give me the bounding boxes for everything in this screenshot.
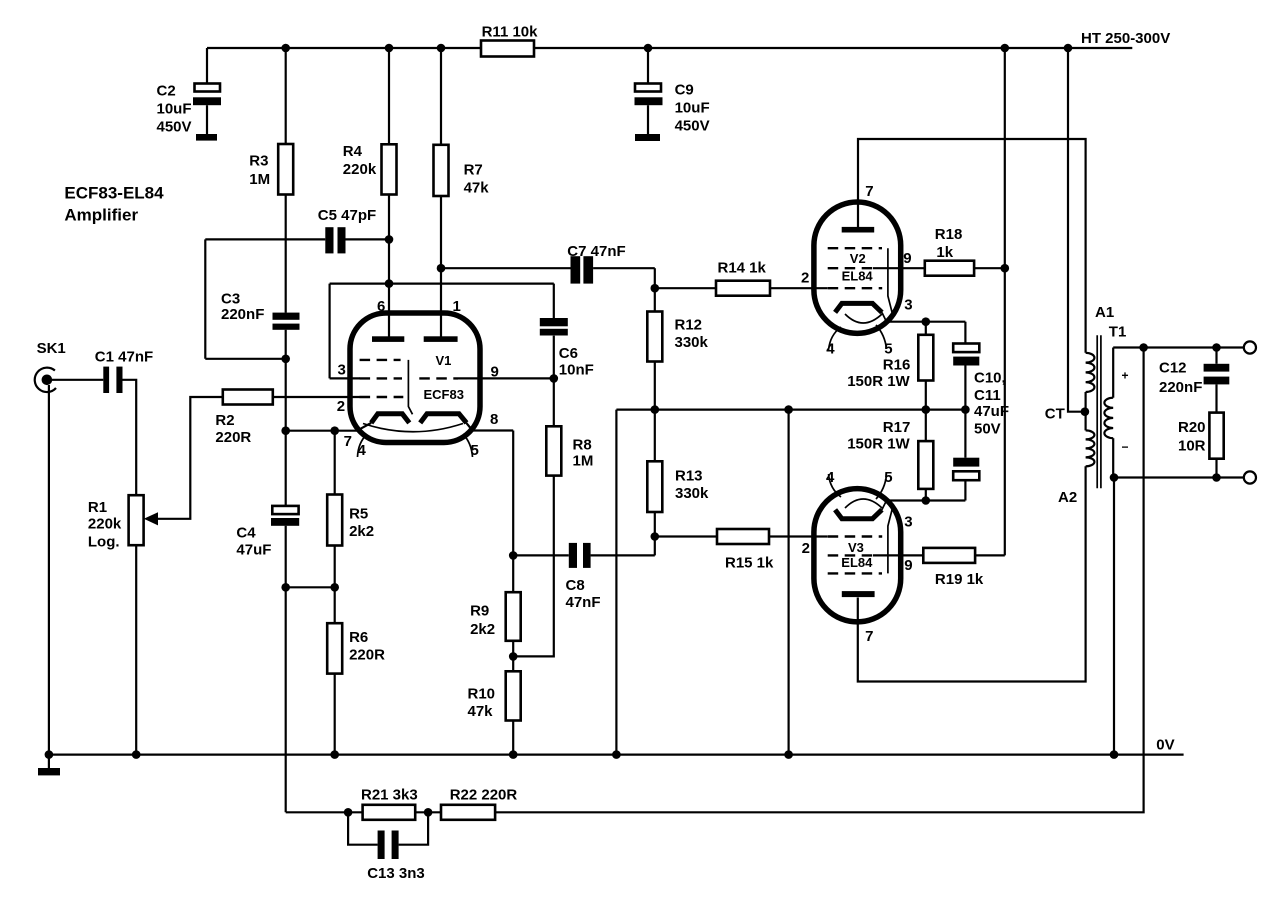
V1 pentode anode plate	[372, 336, 404, 342]
resistor R3	[249, 144, 293, 195]
V2 cathode	[835, 303, 882, 312]
V2 heater arc	[845, 314, 882, 323]
V2 anode plate	[842, 227, 875, 233]
wire C8 row right segment	[591, 554, 655, 556]
wire C5 left leg down	[204, 239, 206, 358]
svg-text:47k: 47k	[468, 703, 494, 720]
wire V1 pin 9 row solid	[458, 377, 554, 379]
V3 anode plate	[842, 591, 875, 597]
svg-text:C9: C9	[675, 82, 694, 99]
svg-text:50V: 50V	[974, 420, 1001, 437]
wire R13 top lead	[654, 410, 656, 462]
V1 control grid dashes	[360, 396, 404, 398]
svg-text:R2: R2	[215, 412, 234, 429]
svg-text:C1 47nF: C1 47nF	[95, 348, 153, 365]
wire R9 bottom to R10 top	[512, 641, 514, 672]
svg-text:C11: C11	[974, 387, 1001, 404]
wire C5 row left segment	[205, 238, 325, 240]
junction bus R16 R17 node	[922, 405, 931, 414]
svg-text:3: 3	[338, 362, 346, 379]
svg-text:R11 10k: R11 10k	[482, 23, 539, 40]
svg-text:C10,: C10,	[974, 370, 1006, 387]
resistor R10	[468, 671, 521, 720]
wire V2 pin 3 row	[887, 321, 966, 323]
wire secondary bottom lead	[1112, 438, 1114, 477]
resistor R2	[215, 390, 272, 446]
V1 suppressor grid dashes	[360, 359, 401, 361]
svg-text:220R: 220R	[349, 647, 385, 664]
capacitor C6	[540, 318, 594, 379]
svg-text:5: 5	[884, 469, 892, 486]
svg-text:3: 3	[904, 514, 912, 531]
V3 designator labels	[841, 540, 873, 570]
svg-text:R4: R4	[343, 143, 363, 160]
V1 heater arc	[363, 424, 463, 432]
svg-text:330k: 330k	[675, 485, 709, 502]
V2 control grid dashes	[828, 287, 883, 289]
wire V3 pin 3 row	[887, 499, 966, 501]
V1 triode grid dashes	[419, 377, 458, 379]
resistor R15	[717, 529, 774, 572]
svg-text:R18: R18	[935, 226, 963, 243]
wire V1 pin 3 link leg	[329, 284, 331, 379]
resistor R11	[481, 23, 538, 56]
wire C9 top lead	[647, 48, 649, 84]
svg-text:4: 4	[826, 469, 835, 486]
resistor R7	[434, 145, 490, 197]
svg-text:7: 7	[344, 433, 352, 450]
wire C5 row right segment to R4 column	[345, 238, 390, 240]
svg-text:A1: A1	[1095, 304, 1114, 321]
wire secondary top lead	[1112, 348, 1114, 398]
svg-text:C12: C12	[1159, 360, 1187, 377]
capacitor C8	[566, 543, 601, 611]
junction R14 R12 C7 node	[651, 284, 660, 293]
svg-text:10uF: 10uF	[157, 101, 192, 118]
wire R18 output to screen supply	[974, 267, 1005, 269]
svg-text:SK1: SK1	[37, 340, 66, 357]
resistor R21	[361, 787, 418, 820]
V2 cathode to pin 3 link	[882, 312, 887, 321]
wire HT rail left segment	[207, 47, 481, 49]
wire C4 bottom through R5-R6 junction and 0V to feedback line	[285, 526, 287, 813]
resistor R5	[327, 495, 374, 546]
wire C6 top lead	[553, 284, 555, 318]
junction V3 pin3 R17	[922, 496, 931, 505]
svg-text:C8: C8	[566, 577, 585, 594]
resistor R9	[470, 592, 521, 641]
svg-text:ECF83: ECF83	[424, 387, 464, 402]
capacitor C9	[635, 82, 710, 142]
wire R20 bottom lead	[1215, 459, 1217, 478]
wire R2 row right into V1 pin 2	[273, 396, 360, 398]
svg-text:10R: 10R	[1178, 438, 1206, 455]
junction CT	[1081, 407, 1090, 416]
label C10 C11 values	[974, 370, 1009, 438]
capacitor C10	[953, 344, 979, 366]
svg-text:9: 9	[491, 364, 499, 381]
junction dots on HT rail	[281, 44, 1072, 53]
svg-text:1k: 1k	[936, 244, 953, 261]
V2 suppressor to cathode link	[888, 248, 893, 314]
wire C8 row left segment	[513, 554, 569, 556]
junction anode link to R4 column	[385, 279, 394, 288]
svg-text:9: 9	[903, 250, 911, 267]
V2 screen grid dashes	[828, 267, 873, 269]
svg-text:8: 8	[490, 411, 498, 428]
capacitor C12	[1159, 360, 1229, 396]
junction C8 to pin8 column	[509, 551, 518, 560]
wire 0V rail	[49, 753, 1184, 755]
title text	[64, 184, 164, 225]
svg-text:220k: 220k	[88, 516, 122, 533]
svg-text:V2: V2	[850, 251, 866, 266]
svg-text:R17: R17	[883, 419, 911, 436]
wire V1 pin 3 entry	[330, 377, 360, 379]
junction R18 screen supply	[1001, 264, 1010, 273]
wire R6 bottom lead to 0V	[334, 674, 336, 755]
svg-text:R12: R12	[675, 317, 703, 334]
svg-text:1: 1	[453, 298, 461, 315]
V1 triode anode plate	[424, 336, 458, 342]
resistor R6	[327, 623, 385, 673]
junction V2 pin3 R16	[922, 317, 931, 326]
svg-text:R5: R5	[349, 506, 368, 523]
wire R17 bottom lead	[925, 489, 927, 501]
svg-text:V3: V3	[848, 540, 864, 555]
junction bus C10 C11 node	[961, 405, 970, 414]
op-amp V1 ECF83 tube outline	[350, 313, 480, 443]
capacitor C3	[221, 291, 300, 330]
wire R15 row left segment	[655, 535, 717, 537]
junction R9 R10 R8 node	[509, 652, 518, 661]
svg-text:C2: C2	[157, 83, 176, 100]
wire V1 pin 7 row	[286, 423, 372, 431]
capacitor C13	[367, 831, 425, 883]
wire R3 node link row	[205, 358, 285, 360]
wire C11 top lead from bus	[964, 410, 966, 458]
wire V3 pin 7 to transformer A2	[858, 466, 1086, 681]
wire C11 bottom lead	[964, 480, 966, 500]
svg-text:4: 4	[826, 341, 835, 358]
svg-text:7: 7	[865, 628, 873, 645]
wire C10 bottom lead to bus	[964, 366, 966, 410]
wire ground bus row	[616, 409, 965, 411]
svg-text:10uF: 10uF	[675, 100, 710, 117]
svg-text:CT: CT	[1045, 406, 1065, 423]
wire R4 bottom lead into V1 pin 6 anode	[388, 195, 390, 337]
svg-text:220k: 220k	[343, 161, 377, 178]
svg-text:V1: V1	[436, 353, 452, 368]
junction R20 bottom	[1212, 473, 1221, 482]
junction R21 right C13	[424, 808, 433, 817]
svg-text:C3: C3	[221, 291, 240, 308]
junction bus drop node	[784, 405, 793, 414]
wire HT rail right segment	[534, 47, 1132, 49]
svg-text:5: 5	[471, 442, 479, 459]
svg-text:47k: 47k	[464, 180, 490, 197]
svg-text:2k2: 2k2	[349, 523, 374, 540]
resistor R17	[847, 419, 933, 489]
junction C6 R8 pin9 node	[550, 374, 559, 383]
svg-text:220nF: 220nF	[1159, 379, 1202, 396]
svg-text:R10: R10	[468, 686, 496, 703]
wire R2 row left with corner to R1 wiper	[158, 397, 223, 519]
svg-text:C13 3n3: C13 3n3	[367, 865, 425, 882]
V2 pin 4 arc	[829, 327, 842, 350]
transformer T1 secondary winding	[1104, 398, 1113, 438]
wire anode to screen link row	[330, 283, 554, 285]
svg-text:4: 4	[358, 442, 367, 459]
transistor V3 EL84 tube outline	[814, 489, 901, 622]
svg-text:C6: C6	[559, 345, 578, 362]
wire R3 bottom lead to C3	[285, 195, 287, 313]
wire C13 right leg	[399, 812, 429, 844]
V2 pin number labels	[801, 183, 913, 358]
V3 suppressor grid dashes	[828, 572, 882, 574]
svg-text:9: 9	[904, 557, 912, 574]
V1 pin 5 arc	[463, 434, 473, 457]
junction pin7 to C4 column	[281, 426, 290, 435]
svg-text:2: 2	[802, 540, 810, 557]
wire C7 row left segment	[441, 267, 571, 269]
transistor V2 EL84 tube outline	[814, 202, 901, 333]
wire C7 output corner down to R14 node	[654, 268, 656, 288]
resistor R19	[923, 548, 984, 588]
resistor R14	[716, 260, 770, 296]
wire R13 bottom lead to grid node	[654, 512, 656, 537]
svg-text:R6: R6	[349, 629, 368, 646]
svg-text:450V: 450V	[675, 118, 710, 135]
V2 designator labels	[842, 251, 874, 283]
wire R5 top lead	[334, 431, 336, 495]
wire R16 top lead	[925, 322, 927, 335]
wire C12 top lead	[1215, 348, 1217, 364]
wire R14 row left segment	[655, 287, 716, 289]
output terminal minus	[1244, 471, 1256, 483]
wire C12 to R20	[1215, 384, 1217, 412]
junction C4 R5 R6 node	[281, 583, 339, 592]
wire R14 row right segment into V2 pin 2	[770, 287, 828, 289]
svg-text:R20: R20	[1178, 419, 1206, 436]
svg-text:150R 1W: 150R 1W	[847, 435, 910, 452]
wire C13 left leg	[348, 812, 378, 844]
svg-text:330k: 330k	[675, 334, 709, 351]
svg-text:R8: R8	[573, 437, 592, 454]
capacitor C1	[95, 348, 153, 393]
V1 designator labels	[424, 353, 464, 402]
wire R4 top lead	[388, 48, 390, 144]
V1 suppressor to cathode link	[408, 360, 412, 414]
resistor R13	[647, 461, 709, 512]
resistor R4	[343, 143, 397, 195]
svg-text:2k2: 2k2	[470, 621, 495, 638]
svg-text:R22 220R: R22 220R	[450, 787, 518, 804]
junction R21 left C13	[344, 808, 353, 817]
svg-text:150R 1W: 150R 1W	[847, 373, 910, 390]
wire feedback from output to R22	[495, 348, 1144, 813]
wire C8 right link up to grid node	[654, 537, 656, 556]
resistor R8	[546, 426, 593, 475]
V3 pin number labels	[802, 469, 913, 645]
wire R18 row tube side	[873, 267, 925, 269]
wire feedback row to C4 column	[286, 811, 363, 813]
transformer T1 core lines	[1097, 335, 1101, 488]
junction pin7 to R5 column	[330, 426, 339, 435]
wire R5-R6 junction row to C4	[286, 586, 335, 588]
V1 triode cathode	[420, 414, 466, 423]
wire V3 pin 9 row to R19	[873, 554, 923, 556]
wire R16 bottom lead to bus	[925, 381, 927, 410]
wire R12 top lead	[654, 288, 656, 311]
wire C7 row right segment	[593, 267, 655, 269]
junction feedback tap	[1139, 343, 1148, 352]
svg-text:R19 1k: R19 1k	[935, 571, 984, 588]
wire V1 pin 8 row	[466, 423, 513, 431]
svg-text:T1: T1	[1109, 324, 1127, 341]
svg-text:R7: R7	[464, 162, 483, 179]
wire C2 top lead	[206, 48, 208, 84]
wire R3 top lead	[285, 48, 287, 144]
svg-text:0V: 0V	[1156, 736, 1174, 753]
V3 pin 5 arc	[876, 475, 887, 499]
svg-text:R1: R1	[88, 499, 107, 516]
wire output minus ground leg	[1113, 478, 1115, 755]
junction R3 node	[281, 355, 290, 364]
potentiometer R1	[88, 495, 158, 550]
svg-text:2: 2	[801, 269, 809, 286]
svg-text:47nF: 47nF	[566, 594, 601, 611]
ground chassis bar	[38, 755, 60, 776]
wire HT to transformer CT	[1068, 48, 1085, 412]
svg-text:C7 47nF: C7 47nF	[567, 243, 625, 260]
wire R19 output to screen supply	[975, 554, 1005, 556]
wire R1 bottom lead to 0V	[135, 545, 137, 754]
wire R21-R22 link	[415, 811, 441, 813]
wire screen supply vertical	[1004, 48, 1006, 555]
svg-text:R3: R3	[249, 153, 268, 170]
capacitor C5	[318, 207, 376, 253]
V3 screen grid dashes	[828, 554, 873, 556]
svg-text:EL84: EL84	[842, 268, 874, 283]
junction minus ground	[1110, 473, 1119, 482]
svg-text:220R: 220R	[215, 429, 251, 446]
wire R15 row right segment into V3 pin 2	[769, 535, 828, 537]
V2 suppressor grid dashes	[828, 247, 882, 249]
wire R8 bottom leg down and left to R9-R10 junction	[513, 476, 554, 657]
wire C1 to R1 top	[123, 380, 137, 495]
V2 pin 5 arc	[876, 325, 887, 349]
svg-text:450V: 450V	[157, 119, 192, 136]
junction R12 R13 bus node	[651, 405, 660, 414]
output terminal plus	[1244, 341, 1256, 353]
V3 suppressor to cathode link	[888, 508, 893, 574]
svg-text:3: 3	[904, 296, 912, 313]
wire R7 top lead	[440, 48, 442, 145]
V1 pin number labels	[337, 298, 499, 459]
wire SK1 ground leg	[48, 385, 50, 755]
junction dots on 0V rail	[45, 750, 1119, 759]
wire C6 bottom lead to pin9 node	[553, 336, 555, 379]
svg-text:R15 1k: R15 1k	[725, 555, 774, 572]
resistor R18	[925, 226, 974, 276]
capacitor C2	[157, 83, 222, 141]
svg-text:1M: 1M	[249, 171, 270, 188]
wire ground bus drop to 0V	[787, 410, 789, 755]
svg-text:EL84: EL84	[841, 555, 873, 570]
V1 pin 4 arc	[358, 434, 368, 457]
junction C5 to R4 column	[385, 235, 394, 244]
V1 screen grid dashes	[360, 377, 402, 379]
V1 pentode cathode	[371, 414, 409, 423]
capacitor C11	[953, 458, 979, 480]
svg-text:220nF: 220nF	[221, 306, 264, 323]
wire R7 bottom lead into V1 pin 1 anode	[440, 196, 442, 337]
wire C2 bottom lead	[206, 105, 208, 134]
wire CT to primary lower	[1084, 412, 1086, 431]
wire output plus row	[1113, 346, 1244, 348]
V3 pin 4 arc	[829, 474, 842, 497]
wire C10 top lead	[964, 322, 966, 344]
svg-text:10nF: 10nF	[559, 362, 594, 379]
wire R10 bottom lead to 0V	[512, 721, 514, 755]
wire R17 top lead from bus	[925, 410, 927, 442]
svg-text:C5 47pF: C5 47pF	[318, 207, 376, 224]
wire V2 pin 7 link to transformer A1	[858, 139, 1086, 353]
wire SK1 to C1	[47, 379, 103, 381]
svg-text:R16: R16	[883, 357, 911, 374]
svg-text:R21 3k3: R21 3k3	[361, 787, 418, 804]
svg-text:1M: 1M	[573, 453, 594, 470]
V3 cathode	[835, 510, 882, 519]
capacitor C7	[567, 243, 625, 284]
svg-text:ECF83-EL84: ECF83-EL84	[64, 184, 164, 203]
svg-text:47uF: 47uF	[974, 403, 1009, 420]
svg-text:6: 6	[377, 298, 385, 315]
svg-text:5: 5	[884, 341, 892, 358]
wire primary upper to CT	[1084, 392, 1086, 412]
junction R13 R15 grid node	[651, 532, 660, 541]
wire R8 top lead	[553, 378, 555, 426]
wire output minus row	[1113, 476, 1244, 478]
svg-text:47uF: 47uF	[236, 542, 271, 559]
transformer T1 primary winding upper	[1086, 353, 1095, 392]
wire V1 pin 8 corner down through C8 node to R9	[512, 431, 514, 593]
wire C3 bottom to C4 through pin3 and pin7 nodes	[285, 330, 287, 506]
capacitor C4	[236, 506, 299, 559]
transformer T1 primary winding lower	[1086, 430, 1095, 466]
wire R5 bottom lead	[334, 546, 336, 624]
wire ground bus left leg to 0V	[615, 410, 617, 755]
resistor R16	[847, 335, 933, 390]
svg-text:7: 7	[865, 183, 873, 200]
svg-text:Amplifier: Amplifier	[64, 206, 138, 225]
wire C9 bottom lead	[647, 105, 649, 134]
junction C7 to R7 column	[437, 264, 446, 273]
resistor R12	[647, 312, 708, 362]
svg-text:R13: R13	[675, 468, 703, 485]
svg-text:A2: A2	[1058, 489, 1077, 506]
svg-text:R14 1k: R14 1k	[718, 260, 767, 277]
transformer labels	[1045, 304, 1129, 506]
resistor R20	[1178, 413, 1224, 459]
svg-text:HT 250-300V: HT 250-300V	[1081, 30, 1170, 47]
V3 cathode to pin 3 link	[882, 501, 887, 510]
svg-text:−: −	[1122, 440, 1129, 454]
svg-text:2: 2	[337, 398, 345, 415]
svg-text:Log.: Log.	[88, 533, 120, 550]
wire R12 bottom lead to ground bus	[654, 362, 656, 410]
